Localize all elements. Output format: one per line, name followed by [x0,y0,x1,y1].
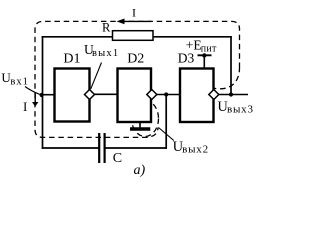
dashed loop around ground of D2 output [132,101,159,137]
svg-text:D2: D2 [127,51,144,66]
ground (at D2 output stage) [139,121,141,127]
output diamond of D2 [147,90,157,100]
svg-text:R: R [102,21,111,35]
wire: bottom wire from left bus to capacitor [42,147,99,149]
wire: left vertical bus [42,36,44,149]
svg-text:вых1: вых1 [92,48,119,59]
node: D1 input junction [40,93,44,97]
current arrow I (top, pointing left) [124,20,151,22]
resistor R [113,31,154,41]
wire: right vertical from top wire down to Uvyh3 node [230,36,232,95]
wire: D2 output to D3 input [156,94,182,96]
output diamond of D1 [85,90,95,100]
node: D3 output junction [229,92,233,96]
capacitor C (right plate) [103,133,105,163]
callout line Uvyh1 [91,63,102,89]
capacitor C (left plate) [98,133,100,163]
callout line Uvh1 [25,87,41,96]
output diamond of D3 [209,90,219,100]
wire: input wire to D1 [42,94,56,96]
dashed current loop I (outer path: top, left side, bottom) [35,21,240,137]
inverter D3 [180,69,214,123]
wire: riser from bottom wire up to D2 output node [165,95,167,149]
svg-text:вых3: вых3 [227,104,254,116]
power rail +Epit [198,54,212,56]
svg-text:а): а) [134,163,146,178]
wire: D3 output stub to Uvyh3 [218,94,249,96]
inverter D1 [55,69,90,122]
svg-text:C: C [113,151,122,166]
svg-text:D1: D1 [63,51,80,66]
svg-text:I: I [132,5,136,19]
wire: top feedback wire (resistor to right corner) [152,36,232,38]
svg-text:вх1: вх1 [10,76,28,87]
inverter D2 [118,69,152,123]
dashed current loop I (U-curve around D3 output stage) [204,68,240,89]
current arrow I (left side, pointing down) [34,93,36,103]
wire: bottom wire from capacitor to riser [106,147,168,149]
svg-text:пит: пит [201,43,217,54]
node: D2 output junction [164,92,168,96]
wire: top feedback wire (left segment to resistor) [42,36,113,38]
svg-text:вых2: вых2 [182,144,209,156]
wire: D1 output to D2 input [94,93,119,95]
svg-text:I: I [23,99,27,114]
callout line Uvyh2 [159,128,174,141]
svg-text:+E: +E [186,38,202,53]
